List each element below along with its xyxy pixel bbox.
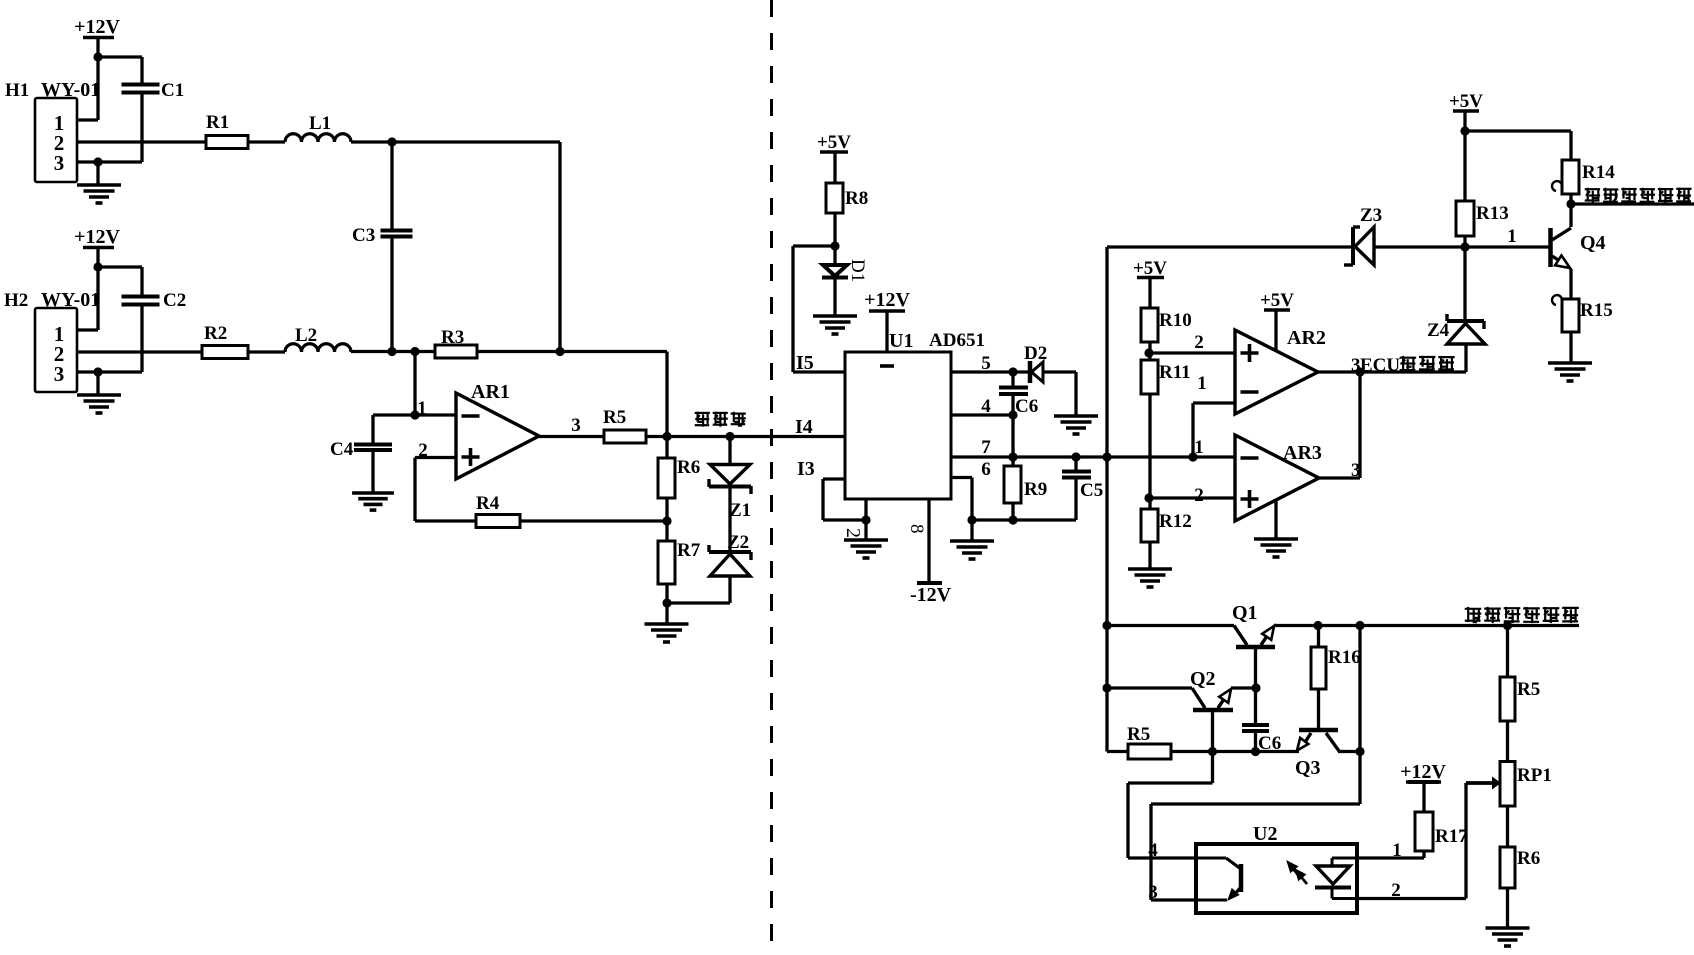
svg-text:C5: C5 xyxy=(1080,480,1103,501)
svg-text:AR3: AR3 xyxy=(1283,442,1322,464)
svg-text:1: 1 xyxy=(417,398,427,419)
svg-text:RP1: RP1 xyxy=(1517,765,1552,786)
svg-text:R8: R8 xyxy=(845,188,868,209)
svg-text:7: 7 xyxy=(981,437,991,458)
svg-text:6: 6 xyxy=(981,459,991,480)
svg-text:2: 2 xyxy=(1194,332,1204,353)
svg-text:H1: H1 xyxy=(5,80,29,101)
svg-text:C3: C3 xyxy=(352,225,375,246)
svg-text:1: 1 xyxy=(1392,840,1402,861)
svg-text:C2: C2 xyxy=(163,290,186,311)
svg-text:2: 2 xyxy=(418,440,428,461)
svg-text:R6: R6 xyxy=(677,457,700,478)
svg-text:R4: R4 xyxy=(476,493,500,514)
svg-text:R14: R14 xyxy=(1582,162,1615,183)
svg-text:3: 3 xyxy=(1351,460,1361,481)
svg-text:3: 3 xyxy=(1148,882,1158,903)
svg-text:+12V: +12V xyxy=(74,226,120,248)
svg-text:D2: D2 xyxy=(1024,343,1047,364)
svg-text:R12: R12 xyxy=(1159,511,1192,532)
svg-text:2: 2 xyxy=(1391,880,1401,901)
svg-text:+5V: +5V xyxy=(1260,290,1294,311)
svg-text:+12V: +12V xyxy=(1400,761,1446,783)
svg-text:R2: R2 xyxy=(204,323,227,344)
svg-text:D1: D1 xyxy=(847,259,868,282)
svg-text:+12V: +12V xyxy=(74,16,120,38)
svg-text:C6: C6 xyxy=(1258,733,1281,754)
svg-text:R7: R7 xyxy=(677,540,701,561)
svg-text:H2: H2 xyxy=(4,290,28,311)
svg-text:5: 5 xyxy=(981,353,991,374)
svg-text:+12V: +12V xyxy=(864,289,910,311)
svg-text:1: 1 xyxy=(1197,373,1207,394)
svg-text:ECU: ECU xyxy=(1360,355,1400,376)
svg-text:I3: I3 xyxy=(797,458,815,480)
svg-text:R10: R10 xyxy=(1159,310,1192,331)
svg-text:Z3: Z3 xyxy=(1360,205,1382,226)
svg-text:Q3: Q3 xyxy=(1295,757,1321,779)
svg-text:L2: L2 xyxy=(295,325,317,346)
svg-text:AD651: AD651 xyxy=(929,330,985,351)
svg-text:3: 3 xyxy=(54,151,65,175)
svg-text:1: 1 xyxy=(1507,226,1517,247)
svg-text:I5: I5 xyxy=(796,352,814,374)
svg-text:I4: I4 xyxy=(795,416,813,438)
svg-text:C4: C4 xyxy=(330,439,354,460)
svg-text:Z4: Z4 xyxy=(1427,320,1450,341)
svg-text:4: 4 xyxy=(1148,840,1158,861)
svg-text:+5V: +5V xyxy=(817,132,851,153)
svg-text:R5: R5 xyxy=(1517,679,1540,700)
svg-text:-12V: -12V xyxy=(910,584,952,606)
svg-text:Q4: Q4 xyxy=(1580,232,1606,254)
svg-text:+5V: +5V xyxy=(1449,91,1483,112)
svg-text:Z2: Z2 xyxy=(727,532,749,553)
svg-text:R16: R16 xyxy=(1328,647,1361,668)
svg-text:2: 2 xyxy=(1194,485,1204,506)
svg-text:8: 8 xyxy=(906,524,927,534)
svg-text:AR1: AR1 xyxy=(471,381,510,403)
svg-text:Z1: Z1 xyxy=(729,500,751,521)
svg-text:AR2: AR2 xyxy=(1287,327,1326,349)
svg-text:Q2: Q2 xyxy=(1190,668,1216,690)
svg-text:3: 3 xyxy=(54,362,65,386)
svg-text:R3: R3 xyxy=(441,327,464,348)
svg-text:U2: U2 xyxy=(1253,823,1277,845)
svg-text:1: 1 xyxy=(1194,437,1204,458)
svg-text:3: 3 xyxy=(571,415,581,436)
svg-text:C6: C6 xyxy=(1015,396,1038,417)
svg-text:2: 2 xyxy=(842,528,864,538)
svg-text:U1: U1 xyxy=(889,330,913,352)
svg-text:C1: C1 xyxy=(161,80,184,101)
svg-text:L1: L1 xyxy=(309,113,331,134)
svg-text:R5: R5 xyxy=(1127,724,1150,745)
svg-text:R1: R1 xyxy=(206,112,229,133)
svg-text:4: 4 xyxy=(981,396,991,417)
svg-text:R13: R13 xyxy=(1476,203,1509,224)
svg-text:Q1: Q1 xyxy=(1232,602,1258,624)
svg-text:R9: R9 xyxy=(1024,479,1047,500)
svg-text:R11: R11 xyxy=(1159,362,1191,383)
svg-text:R6: R6 xyxy=(1517,848,1540,869)
svg-text:R5: R5 xyxy=(603,407,626,428)
svg-text:R17: R17 xyxy=(1435,826,1468,847)
svg-text:R15: R15 xyxy=(1580,300,1613,321)
